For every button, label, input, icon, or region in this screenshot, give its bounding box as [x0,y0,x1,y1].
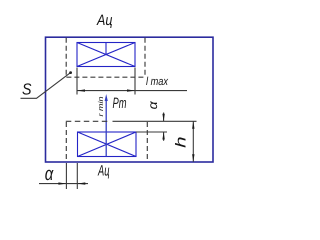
dashed line bottom box left vertical [65,122,67,162]
dashed window outline top-right vertical [144,38,146,77]
arrow down tip at 121.3 [162,114,164,122]
arrow left tip at 77.3 (bottom a) [77,182,85,184]
arrow right tip at 66.4 (bottom a) [58,182,66,184]
arrow right of l max [127,89,135,91]
svg-text:r min: r min [97,96,105,116]
coil top (winding cross-section with X) [77,43,135,67]
svg-text:Ац: Ац [97,162,109,179]
svg-text:S: S [22,82,32,99]
solid extension of dashed level y=121.3 to the right [113,120,197,122]
arrow up tip at 132 [162,132,164,140]
extension line of bottom coil top edge [136,131,167,133]
svg-text:h: h [174,136,190,148]
dimension h (right side vertical) [192,121,194,162]
leader line for S with dot [21,73,71,99]
svg-text:α: α [146,100,160,109]
svg-text:l max: l max [146,76,169,88]
svg-text:Pm: Pm [113,95,127,112]
arrow down tip at 161.8 [192,154,194,162]
dashed window outline top-left vertical [65,38,67,76]
arrow left of l max [77,89,85,91]
svg-text:Ац: Ац [96,12,113,29]
svg-text:α: α [45,164,54,185]
extension lines bottom a dimension [39,163,88,189]
dashed line bottom box right vertical [146,122,148,162]
dashed window outline top horizontal [66,76,144,78]
dimension line l max with shelf [77,90,187,92]
dimension a (right side, small vertical) [163,113,165,141]
arrow up tip at 121.3 [192,121,194,129]
dashed line bottom box horizontal [66,120,108,122]
extension line left for l max [76,68,78,95]
coil bottom (winding cross-section with X) [78,132,137,157]
extension line right for l max [134,68,136,95]
yoke frame (outer magnetic core rectangle) [46,37,214,162]
force arrow Pт (vertical blue line with up arrowhead) [105,94,108,157]
